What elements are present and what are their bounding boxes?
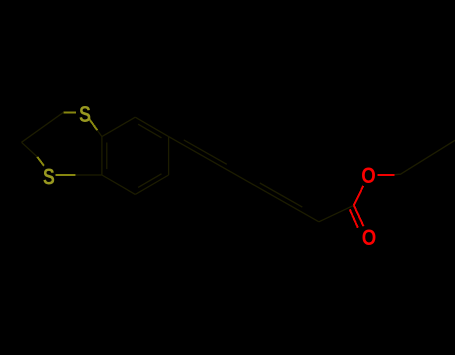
bond C5=O parallel line bbox=[350, 209, 358, 228]
bond C3 to S4 bright half bbox=[37, 157, 44, 166]
bond C5=O main line bbox=[354, 205, 364, 226]
bond S4-C4a dark half bbox=[75, 174, 102, 176]
svg-text:O: O bbox=[362, 225, 377, 250]
bond S1-C8a dark stub bbox=[97, 130, 102, 136]
benzene edge C8a-T bbox=[102, 117, 135, 136]
chain double bond parallel B bbox=[260, 183, 303, 207]
bond C2-C3 (CH2a to CH2b) bbox=[22, 112, 64, 142]
benzene inner double line left bbox=[106, 143, 108, 170]
benzene edge RT-RB (right vertical) bbox=[168, 137, 170, 175]
benzene edge C8a-C4a (left vertical) bbox=[101, 137, 103, 175]
svg-text:O: O bbox=[361, 163, 376, 188]
chain double bond parallel A bbox=[184, 140, 227, 164]
red ester bonds bbox=[350, 175, 395, 228]
bond S1 to ring carbon C8a bright bbox=[88, 118, 97, 131]
wire S1-C2 bright half (bond S top to CH2a) bbox=[37, 112, 97, 175]
chain main line RT to C4 bbox=[169, 137, 319, 222]
svg-text:S: S bbox=[43, 163, 55, 189]
benzene edge B-C4a bbox=[102, 175, 135, 194]
bond S4 to ring carbon C4a bright half bbox=[56, 174, 76, 176]
benzene edge T-RT bbox=[135, 117, 168, 136]
dark carbon skeleton bbox=[22, 112, 455, 222]
svg-text:S: S bbox=[79, 101, 91, 127]
benzene inner double line bottom-right bbox=[138, 174, 161, 188]
bond O-CH2 dark half + ethyl CH2-CH3 bbox=[394, 140, 455, 174]
benzene edge RB-B bbox=[135, 175, 168, 194]
bond C3-S4 dark half bbox=[22, 142, 38, 157]
benzene inner double line top-right bbox=[138, 124, 161, 138]
bond C4 to carbonyl C5 bbox=[319, 205, 354, 222]
bond ester O to CH2 red half bbox=[378, 174, 395, 176]
bond C5 to ester O bbox=[354, 186, 364, 206]
